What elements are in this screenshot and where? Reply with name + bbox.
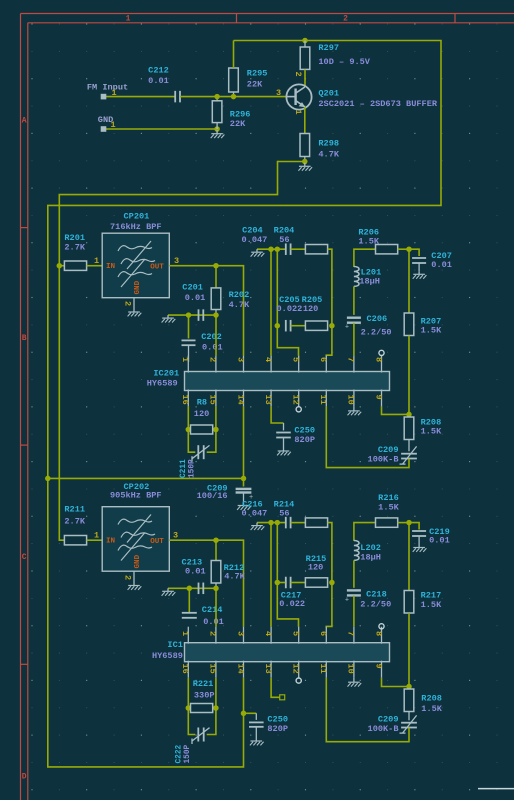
wire FM input to C212	[104, 96, 176, 98]
resistor R205	[305, 321, 327, 330]
junction R296 top on base line	[214, 94, 220, 100]
svg-text:2.2/50: 2.2/50	[360, 600, 391, 610]
IC201 top pin stubs	[187, 356, 189, 373]
wire IC201 pin4 column	[270, 249, 272, 355]
trimmer capacitor C222	[197, 728, 199, 742]
square end GND wire	[101, 127, 106, 132]
wire C205 to R205	[291, 325, 306, 327]
svg-text:4.7K: 4.7K	[318, 149, 339, 159]
svg-text:22K: 22K	[247, 79, 263, 89]
svg-text:1: 1	[94, 531, 99, 541]
wire pin6 jog	[326, 326, 332, 357]
trimmer capacitor C211	[197, 445, 199, 459]
svg-text:0.01: 0.01	[203, 617, 224, 627]
svg-text:GND: GND	[134, 554, 142, 568]
ground at C250 stage2	[255, 727, 257, 739]
junction supply rail tap	[45, 476, 51, 482]
resistor R221	[186, 705, 192, 711]
svg-text:9: 9	[373, 395, 383, 400]
ground at C201 line	[167, 315, 169, 318]
resistor R8	[186, 427, 192, 433]
svg-text:14: 14	[235, 664, 245, 674]
svg-text:16: 16	[180, 395, 190, 405]
wire supply rail top	[48, 41, 441, 767]
svg-text:10: 10	[346, 395, 356, 405]
wire R221 right rail	[207, 678, 216, 735]
wire C209 to IC201 pin11	[326, 406, 409, 467]
wire C204 column down to C205 line	[276, 249, 278, 326]
capacitor C209 100/16	[243, 478, 245, 486]
svg-text:C201: C201	[182, 283, 203, 293]
resistor R202	[215, 266, 217, 288]
wire C218 to IC1 pin7	[353, 596, 355, 627]
svg-text:1.5K: 1.5K	[358, 237, 379, 247]
junction C204 column top	[275, 246, 281, 252]
no-connect circle IC1 pin12	[296, 678, 301, 683]
wire R221 left rail	[188, 678, 195, 735]
junction R296 bottom	[214, 126, 220, 132]
junction R298 bottom	[302, 159, 308, 165]
square end IC1 pin13	[280, 695, 285, 700]
IC IC201 HY6589	[185, 372, 390, 391]
junction R208 top	[406, 412, 412, 418]
resistor R212	[215, 540, 217, 560]
frame column tick 2	[454, 14, 456, 23]
svg-text:3: 3	[173, 531, 178, 541]
svg-text:IN: IN	[106, 538, 116, 546]
no-connect circle IC201 pin12	[296, 407, 301, 412]
junction C202 tap	[186, 312, 192, 318]
svg-text:5: 5	[291, 357, 301, 362]
svg-text:R298: R298	[318, 139, 339, 149]
junction R215 right	[329, 580, 335, 586]
ground at CP201 pin2	[133, 309, 135, 313]
capacitor C207	[409, 249, 419, 256]
svg-text:A: A	[22, 116, 27, 125]
IC201 bottom pin stubs	[187, 390, 189, 407]
svg-text:C212: C212	[148, 65, 169, 75]
svg-text:R202: R202	[229, 290, 250, 300]
wire C216 line	[257, 522, 285, 524]
svg-text:Q201: Q201	[318, 88, 339, 98]
sheet frame inner border	[28, 22, 514, 24]
resistor R208 stage2	[408, 687, 410, 690]
square end FM input wire	[101, 94, 106, 99]
resistor R211	[64, 536, 86, 545]
svg-text:0.047: 0.047	[242, 235, 268, 245]
svg-text:18µH: 18µH	[359, 277, 380, 287]
svg-text:GND: GND	[134, 280, 142, 294]
no-connect circle IC1 pin8	[379, 624, 384, 629]
svg-text:HY6589: HY6589	[152, 651, 183, 661]
svg-text:+: +	[345, 596, 349, 604]
ground at CP202 pin2	[133, 582, 135, 586]
capacitor C201	[198, 309, 200, 321]
svg-text:10: 10	[346, 664, 356, 674]
ground at C213 line	[167, 588, 169, 591]
svg-text:0.01: 0.01	[431, 260, 452, 270]
no-connect circle IC201 pin8	[379, 350, 384, 355]
wire C212 to Q201 base	[180, 96, 287, 98]
wire pin5 jog stage2	[277, 583, 298, 627]
svg-text:1: 1	[126, 15, 131, 24]
wire R297 to Q201 collector	[304, 69, 306, 85]
svg-text:13: 13	[263, 395, 273, 405]
svg-text:2SC2021 – 2SD673 BUFFER: 2SC2021 – 2SD673 BUFFER	[318, 99, 437, 109]
svg-text:R296: R296	[230, 109, 251, 119]
svg-text:100/16: 100/16	[197, 491, 228, 501]
wire IC1 pin13 dangling	[271, 678, 280, 698]
svg-text:1.5K: 1.5K	[421, 326, 442, 336]
wire IC1 pin4 column	[270, 523, 272, 627]
svg-text:56: 56	[279, 235, 289, 245]
capacitor C202	[188, 315, 190, 338]
svg-text:R211: R211	[64, 505, 85, 515]
svg-text:0.01: 0.01	[429, 535, 450, 545]
svg-text:8: 8	[373, 631, 383, 636]
svg-text:22K: 22K	[230, 119, 246, 129]
ground at C209 100/16	[243, 493, 245, 504]
svg-text:2: 2	[208, 631, 218, 636]
junction C217 line left	[275, 580, 281, 586]
frame row tick B/C	[21, 444, 28, 446]
ground at IC201 pin10	[353, 406, 355, 411]
wire CP201 OUT to IC201 pin3	[169, 266, 243, 356]
svg-text:100K-B: 100K-B	[368, 724, 399, 734]
svg-text:4.7K: 4.7K	[224, 571, 245, 581]
filter CP202	[102, 507, 169, 572]
wire R216 right junction	[398, 522, 409, 524]
ground at C216 line	[256, 523, 258, 526]
svg-text:15: 15	[208, 395, 218, 405]
resistor R207	[404, 313, 414, 336]
wire IC1 pin14 column	[243, 678, 245, 714]
svg-text:120: 120	[308, 563, 323, 573]
filter CP201	[102, 233, 169, 298]
svg-text:2: 2	[293, 72, 303, 77]
transistor Q201	[286, 84, 311, 109]
wire R8 right rail	[207, 406, 216, 452]
ground at C250	[283, 437, 285, 448]
capacitor C250	[283, 423, 285, 430]
svg-text:15: 15	[208, 664, 218, 674]
svg-text:120: 120	[303, 304, 318, 314]
svg-text:16: 16	[180, 664, 190, 674]
resistor R217	[404, 591, 414, 614]
svg-text:R295: R295	[247, 68, 268, 78]
svg-text:5: 5	[291, 631, 301, 636]
svg-text:+: +	[345, 324, 349, 332]
capacitor C218	[347, 589, 361, 591]
svg-text:IC201: IC201	[153, 368, 179, 378]
svg-text:716kHz BPF: 716kHz BPF	[110, 222, 162, 232]
svg-text:IN: IN	[106, 263, 116, 271]
junction R212 bottom	[213, 586, 219, 592]
svg-text:11: 11	[318, 395, 328, 405]
ground at R298 bottom	[304, 163, 306, 167]
frame column tick 1	[236, 14, 238, 23]
svg-text:150P: 150P	[184, 744, 192, 763]
svg-text:1.5K: 1.5K	[378, 502, 399, 512]
svg-text:13: 13	[263, 664, 273, 674]
junction R202 top	[213, 263, 219, 269]
svg-text:7: 7	[346, 631, 356, 636]
wire CP202 pin2 to ground	[133, 571, 135, 582]
title block edge	[478, 788, 514, 790]
ground at IC1 pin10	[353, 678, 355, 683]
svg-text:R297: R297	[318, 43, 339, 53]
svg-text:820P: 820P	[267, 724, 288, 734]
junction pin4 column top stage2	[268, 520, 274, 526]
capacitor C217	[285, 577, 287, 589]
svg-text:6: 6	[318, 631, 328, 636]
ground at R296 bottom	[216, 130, 218, 134]
svg-text:3: 3	[235, 357, 245, 362]
wire IC201 pin13 to C250	[271, 406, 283, 423]
svg-text:C211: C211	[180, 459, 188, 478]
junction C214 tap	[187, 586, 193, 592]
wire R205 right junction	[329, 323, 335, 329]
resistor R295	[229, 68, 239, 92]
capacitor C214	[188, 588, 190, 613]
svg-text:330P: 330P	[194, 690, 215, 700]
wire stage1 supply line	[48, 477, 244, 479]
wire IC201 pin14 to supply line	[243, 406, 245, 478]
svg-text:2: 2	[122, 575, 132, 580]
trimmer capacitor C209 100K-B	[408, 440, 410, 452]
resistor R201	[59, 265, 64, 267]
wire C213 line	[168, 587, 216, 589]
svg-text:1.5K: 1.5K	[421, 427, 442, 437]
capacitor C204	[285, 243, 287, 255]
resistor R214	[305, 518, 327, 527]
svg-text:3: 3	[276, 88, 281, 98]
junction R297 top	[302, 38, 308, 44]
svg-text:0.022: 0.022	[277, 304, 303, 314]
junction C209 electrolytic top	[241, 476, 247, 482]
junction C205 line left	[275, 323, 281, 329]
wire R217 to R208 junction stage2	[408, 613, 410, 687]
svg-text:3: 3	[235, 631, 245, 636]
capacitor C216	[285, 517, 287, 529]
wire L201 to C206	[353, 286, 355, 315]
svg-text:2.2/50: 2.2/50	[361, 327, 392, 337]
junction R208 top stage2	[406, 684, 412, 690]
wire R216 to R217	[408, 523, 410, 591]
wire R298 bottom stub	[304, 157, 306, 162]
wire C209 to IC1 pin11	[326, 678, 409, 742]
svg-text:0.01: 0.01	[148, 76, 169, 86]
IC IC1 HY6589	[185, 643, 390, 662]
trimmer capacitor C209 100K-B stage2	[408, 712, 410, 721]
inductor L201	[354, 267, 359, 287]
resistor R206	[376, 245, 398, 254]
wire L202 to C218	[353, 560, 355, 587]
frame row tick C/D	[21, 663, 28, 665]
svg-text:OUT: OUT	[150, 264, 164, 272]
junction pin4 column top	[268, 246, 274, 252]
wire C201 line	[168, 314, 216, 316]
wire C204 to R204	[291, 248, 306, 250]
svg-text:56: 56	[279, 508, 289, 518]
wire pin6 jog stage2	[326, 583, 332, 628]
junction R212 top	[213, 537, 219, 543]
svg-text:18µH: 18µH	[360, 552, 381, 562]
wire C204 line	[257, 248, 285, 250]
svg-text:0.01: 0.01	[185, 293, 206, 303]
resistor R216	[376, 518, 398, 527]
wire R212 bottom to IC1 pin2	[215, 588, 217, 626]
svg-text:8: 8	[373, 357, 383, 362]
wire C206 to IC201 pin7	[353, 323, 355, 356]
ground at C219	[418, 536, 420, 545]
svg-text:11: 11	[318, 664, 328, 674]
svg-text:C206: C206	[367, 314, 388, 324]
resistor R297	[300, 47, 310, 69]
svg-text:150P: 150P	[189, 459, 197, 478]
resistor R298	[300, 134, 310, 157]
svg-text:R208: R208	[421, 693, 442, 703]
svg-text:14: 14	[235, 395, 245, 405]
svg-text:2: 2	[208, 357, 218, 362]
svg-text:4: 4	[263, 357, 273, 362]
inductor L202	[354, 541, 359, 561]
svg-text:C209: C209	[378, 445, 399, 455]
junction C216 column top	[275, 520, 281, 526]
svg-text:HY6589: HY6589	[147, 379, 178, 389]
wire R206 right junction	[398, 248, 409, 250]
ground at C207	[418, 263, 420, 272]
svg-text:100K-B: 100K-B	[368, 455, 399, 465]
svg-text:R221: R221	[193, 679, 214, 689]
IC1 top pin stubs	[187, 627, 189, 644]
svg-text:1: 1	[180, 357, 190, 362]
svg-text:0.047: 0.047	[242, 508, 268, 518]
resistor R215	[305, 578, 327, 587]
wire R214 right to pin6 column stage2	[328, 523, 332, 583]
svg-text:R8: R8	[197, 398, 207, 408]
svg-text:4.7K: 4.7K	[229, 300, 250, 310]
wire CP201 pin2 to ground	[133, 298, 135, 309]
capacitor C250 stage2	[255, 713, 257, 720]
wire R216 line	[354, 523, 376, 541]
svg-text:905kHz BPF: 905kHz BPF	[110, 490, 162, 500]
wire R8 left rail	[188, 406, 195, 452]
wire R202 bottom to IC201 pin2	[215, 315, 217, 356]
junction R202 bottom	[213, 312, 219, 318]
svg-text:B: B	[22, 334, 27, 343]
wire R298 bottom to input bus	[59, 162, 304, 541]
wire GND label to R296 bottom	[104, 128, 218, 130]
IC1 bottom pin stubs	[187, 661, 189, 678]
svg-text:C202: C202	[201, 332, 222, 342]
svg-text:C: C	[22, 553, 27, 562]
wire IC1 pin9	[382, 678, 410, 687]
svg-text:12: 12	[291, 395, 301, 405]
wire R206 line	[354, 249, 376, 267]
wire Q201 emitter to R298	[304, 107, 306, 134]
svg-text:0.01: 0.01	[185, 567, 206, 577]
svg-text:C209: C209	[378, 715, 399, 725]
svg-text:10D – 9.5V: 10D – 9.5V	[318, 57, 370, 67]
svg-text:0.01: 0.01	[202, 342, 223, 352]
svg-text:1.5K: 1.5K	[421, 704, 442, 714]
capacitor C205	[285, 320, 287, 332]
svg-text:9: 9	[373, 664, 383, 669]
svg-text:1: 1	[293, 110, 303, 115]
svg-text:12: 12	[291, 664, 301, 674]
svg-text:2: 2	[343, 15, 348, 24]
svg-text:1: 1	[180, 631, 190, 636]
wire pin5 jog	[277, 326, 298, 356]
svg-text:3: 3	[174, 256, 179, 266]
svg-text:6: 6	[318, 357, 328, 362]
wire C217 to R215	[291, 582, 306, 584]
svg-text:CP201: CP201	[124, 211, 150, 221]
svg-text:820P: 820P	[294, 435, 315, 445]
svg-text:C214: C214	[202, 605, 223, 615]
wire IC201 pin9	[382, 406, 410, 414]
wire supply to C250 stage2	[244, 712, 257, 714]
svg-text:120: 120	[194, 409, 209, 419]
wire CP202 OUT to IC1 pin3	[169, 540, 243, 627]
wire R206 to R207	[408, 249, 410, 313]
capacitor C206	[347, 317, 361, 319]
svg-text:2: 2	[122, 301, 132, 306]
wire R207 to R208 junction	[408, 336, 410, 415]
svg-text:IC1: IC1	[167, 640, 182, 650]
svg-text:C218: C218	[366, 590, 387, 600]
svg-text:OUT: OUT	[150, 538, 164, 546]
capacitor C212	[174, 91, 176, 103]
capacitor C219	[409, 523, 419, 530]
frame row tick A/B	[21, 227, 28, 229]
svg-text:1: 1	[94, 256, 99, 266]
junction R295 bottom on base line	[231, 94, 237, 100]
svg-text:1.5K: 1.5K	[421, 600, 442, 610]
resistor R208	[408, 414, 410, 417]
svg-text:FM Input: FM Input	[87, 83, 128, 93]
wire C216 to R214	[291, 522, 306, 524]
capacitor C213	[198, 583, 200, 595]
sheet frame outer border	[21, 13, 514, 15]
wire C216 column down to C217 line	[276, 523, 278, 583]
resistor R296	[212, 101, 222, 123]
junction R201 tap	[57, 263, 63, 269]
svg-text:7: 7	[346, 357, 356, 362]
ground at C204 line	[256, 249, 258, 252]
svg-text:C222: C222	[176, 744, 184, 763]
junction IC1 pin14 supply	[241, 711, 247, 717]
svg-text:0.022: 0.022	[279, 599, 305, 609]
wire R204 right to pin6 column	[328, 249, 332, 326]
resistor R204	[305, 245, 327, 254]
svg-text:D: D	[22, 772, 27, 781]
svg-text:2.7K: 2.7K	[64, 243, 85, 253]
svg-text:C250: C250	[267, 714, 288, 724]
svg-text:4: 4	[263, 631, 273, 636]
svg-text:2.7K: 2.7K	[64, 517, 85, 527]
